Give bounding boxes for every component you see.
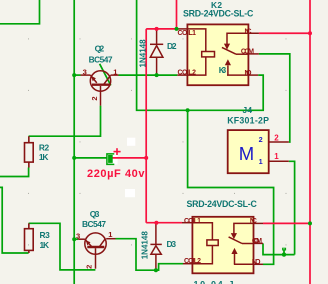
relay K2 [177,24,259,85]
svg-text:BC547: BC547 [89,55,113,65]
svg-text:K3: K3 [219,66,227,75]
diode D2 [150,29,163,75]
connector J4 [228,130,289,173]
svg-text:J4: J4 [243,105,253,115]
svg-text:2: 2 [259,135,263,144]
svg-text:SRD-24VDC-SL-C: SRD-24VDC-SL-C [183,8,254,18]
svg-text:NO: NO [245,70,253,77]
svg-text:3: 3 [76,232,80,241]
wire J4 pin1 down [289,161,295,254]
svg-text:NC: NC [245,28,252,35]
wire R2 bottom exit left [0,168,29,177]
svg-text:SRD-24VDC-SL-C: SRD-24VDC-SL-C [187,199,258,209]
white patch C [125,189,135,197]
svg-text:3: 3 [83,68,87,77]
transistor Q2 [81,71,119,106]
svg-text:COIL1: COIL1 [184,218,201,225]
svg-text:NC: NC [250,218,257,225]
svg-text:COIL1: COIL1 [178,30,197,37]
svg-text:COM: COM [241,49,254,56]
svg-text:R3: R3 [40,230,51,240]
svg-text:220µF 40v: 220µF 40v [87,168,145,180]
white patch B [112,153,118,165]
wire R3 top wrap to Q3 pin2 [29,223,96,270]
wire net label stub [283,250,285,254]
grid dots [28,38,287,245]
wire diagonal across Q2 [100,64,111,86]
junction red dots [144,27,312,225]
svg-text:BC547: BC547 [82,219,106,229]
wire long vertical left rail [73,0,75,284]
svg-text:D3: D3 [167,239,177,249]
relay K3 bottom [182,217,263,273]
wire K3 NO up to junction [188,110,274,264]
wire pink to K3 COIL1 [146,222,182,224]
svg-text:NO: NO [252,259,261,266]
svg-text:2: 2 [84,265,93,269]
svg-text:COM: COM [252,238,262,245]
capacitor C1 220uF [107,148,121,164]
wire cap plus to vertical [112,157,147,159]
diode D3 [150,223,161,271]
svg-text:2: 2 [274,134,279,143]
junction green dots [72,27,312,272]
wire Q3 pin3 to rail [74,238,78,240]
svg-text:1N4148: 1N4148 [140,231,149,260]
wire Q2 pin2 to R2 top [29,106,101,137]
svg-text:COIL2: COIL2 [184,258,201,265]
wire K3 COM run [263,243,295,254]
svg-text:KF301-2P: KF301-2P [227,116,269,126]
wire Q2 pin1 to K2 COIL2 [119,74,178,76]
wire Q2 pin3 to rail [74,74,80,76]
svg-text:1K: 1K [39,152,49,162]
wire D3 anode jog to K3 COIL2 [156,264,183,271]
resistor R3 [25,223,34,253]
transistor Q3 [78,233,115,269]
svg-text:1: 1 [259,157,263,166]
svg-text:10.04.J: 10.04.J [194,280,234,284]
wire top vertical to NO bus [137,0,264,110]
wire pink right rail [309,0,311,284]
white patch A [127,138,135,146]
wire pink long vertical [145,29,147,223]
svg-text:D2: D2 [167,41,177,51]
svg-text:Q2: Q2 [95,44,105,54]
wire rail to capacitor [74,157,107,159]
svg-text:2: 2 [90,96,99,100]
svg-text:M: M [239,143,254,164]
svg-text:1: 1 [274,152,279,161]
wire K2 NC to right rail [259,32,310,34]
wire K2 COM to J4 pin2 [259,54,290,142]
wire K3 NC to right rail [263,222,310,224]
wire pink COIL1 horizontal [146,28,176,30]
wire left edge to R3 bottom [0,187,29,253]
svg-text:COIL2: COIL2 [178,70,197,77]
wire pink top vertical to K2 COIL1 [176,0,178,29]
resistor R2 [25,136,34,167]
svg-text:Q3: Q3 [90,209,100,219]
net label tiny green [282,248,286,251]
svg-text:1K: 1K [40,240,50,250]
svg-text:1N4148: 1N4148 [139,39,148,68]
wire Q3 pin1 to D3 anode [116,239,156,271]
wire top-left exit [0,0,40,24]
